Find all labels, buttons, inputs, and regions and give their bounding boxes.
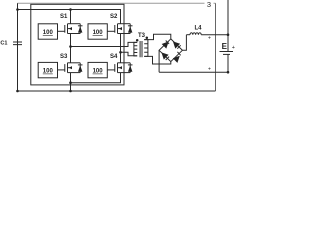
svg-text:+: + [232,45,235,51]
svg-text:S3: S3 [60,54,68,60]
svg-text:T3: T3 [138,33,146,39]
svg-text:+: + [208,67,211,73]
svg-text:S2: S2 [110,14,118,20]
svg-text:+: + [208,35,211,41]
svg-text:E: E [222,42,228,51]
svg-text:3: 3 [207,0,211,9]
svg-text:L4: L4 [195,26,203,32]
svg-text:C1: C1 [0,41,7,47]
svg-text:S1: S1 [60,14,68,20]
svg-text:S4: S4 [110,54,118,60]
